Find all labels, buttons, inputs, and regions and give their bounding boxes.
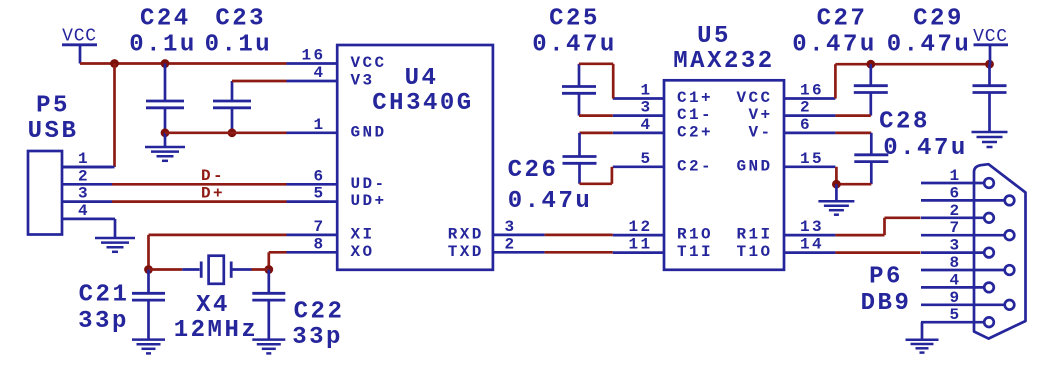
- pin 2 U4: [493, 251, 545, 254]
- svg-text:1: 1: [78, 150, 90, 168]
- wire VCC to USB pin1: [113, 64, 116, 168]
- svg-text:T1I: T1I: [677, 243, 713, 261]
- svg-text:R1I: R1I: [736, 226, 772, 244]
- svg-text:0.1u: 0.1u: [205, 31, 273, 58]
- pin 2 P6: [921, 216, 984, 219]
- ground: [972, 131, 1008, 134]
- svg-text:5: 5: [313, 185, 325, 203]
- svg-text:CH340G: CH340G: [372, 90, 473, 117]
- IC U4 CH340G body: [337, 45, 493, 270]
- capacitor C23: [231, 81, 234, 101]
- pin 1 P6: [921, 182, 984, 185]
- svg-text:C26: C26: [508, 157, 559, 184]
- pin 2 P5: [62, 183, 112, 186]
- svg-text:GND: GND: [736, 157, 772, 175]
- svg-text:12MHz: 12MHz: [174, 317, 259, 344]
- svg-text:5: 5: [640, 150, 652, 168]
- junction: [144, 265, 153, 274]
- svg-text:0.47u: 0.47u: [887, 31, 972, 58]
- svg-text:USB: USB: [28, 118, 79, 145]
- connector P6 DB9 outline: [974, 164, 1026, 338]
- pin 3 P6: [921, 251, 984, 254]
- capacitor C27: [869, 64, 872, 86]
- svg-text:14: 14: [800, 236, 824, 254]
- pin 6 P6: [921, 199, 1005, 202]
- pin 2 U5: [784, 114, 835, 117]
- svg-text:C1-: C1-: [677, 106, 713, 124]
- pin 7 U4: [287, 234, 338, 237]
- svg-text:GND: GND: [351, 123, 387, 141]
- svg-text:3: 3: [949, 237, 961, 255]
- capacitor C26: [580, 132, 613, 135]
- svg-text:1: 1: [640, 82, 652, 100]
- svg-text:D-: D-: [201, 167, 225, 185]
- wire V+ to C27: [835, 114, 870, 117]
- wire XI net: [149, 234, 287, 237]
- pin 14 U5: [784, 251, 835, 254]
- svg-text:V+: V+: [748, 106, 772, 124]
- junction: [228, 128, 237, 137]
- svg-text:C2+: C2+: [677, 124, 713, 142]
- wire P5 pin4 to ground: [112, 218, 115, 221]
- capacitor C25: [578, 64, 581, 87]
- svg-text:7: 7: [949, 219, 961, 237]
- pin 6 U5: [784, 132, 835, 135]
- svg-text:3: 3: [640, 99, 652, 117]
- svg-text:15: 15: [800, 150, 824, 168]
- svg-text:UD-: UD-: [351, 175, 387, 193]
- svg-text:33p: 33p: [78, 308, 129, 335]
- svg-text:C22: C22: [294, 299, 345, 326]
- pin 8 U4: [287, 251, 338, 254]
- svg-text:33p: 33p: [292, 324, 343, 351]
- pin 16 U5: [784, 97, 835, 100]
- svg-text:C24: C24: [140, 6, 191, 33]
- svg-text:0.47u: 0.47u: [508, 188, 593, 215]
- pin 11 U5: [613, 251, 664, 254]
- pin 1 U4: [287, 131, 338, 134]
- pin 4 U5: [613, 132, 664, 135]
- svg-text:6: 6: [313, 167, 325, 185]
- svg-text:D+: D+: [201, 184, 225, 202]
- pin 4 P6: [921, 286, 984, 289]
- svg-text:2: 2: [505, 235, 517, 253]
- junction: [161, 128, 170, 137]
- svg-text:C25: C25: [549, 6, 600, 33]
- svg-text:RXD: RXD: [448, 226, 484, 244]
- svg-text:12: 12: [628, 218, 652, 236]
- svg-text:MAX232: MAX232: [673, 48, 774, 75]
- svg-text:5: 5: [949, 306, 961, 324]
- pin 4 U4: [287, 80, 338, 83]
- pin 5 P6: [921, 321, 984, 324]
- svg-text:UD+: UD+: [351, 192, 387, 210]
- svg-text:C23: C23: [215, 6, 266, 33]
- wire D+ net: [112, 200, 287, 203]
- svg-text:4: 4: [78, 202, 90, 220]
- svg-text:TXD: TXD: [448, 243, 484, 261]
- pin 6 U4: [287, 183, 338, 186]
- ground: [835, 184, 838, 201]
- pin 12 U5: [613, 234, 664, 237]
- pin 13 U5: [784, 234, 835, 237]
- wire RXD net: [545, 234, 613, 237]
- junction: [110, 59, 119, 68]
- ground: [252, 338, 285, 341]
- svg-text:2: 2: [78, 167, 90, 185]
- wire GND rail: [165, 131, 287, 134]
- svg-text:VCC: VCC: [351, 54, 387, 72]
- wire D- net: [112, 183, 287, 186]
- capacitor C24: [164, 64, 167, 102]
- svg-text:3: 3: [78, 185, 90, 203]
- svg-text:9: 9: [949, 289, 961, 307]
- pin 3 U5: [613, 114, 664, 117]
- junction: [161, 59, 170, 68]
- svg-text:U4: U4: [405, 65, 439, 92]
- ground: [164, 133, 167, 147]
- pin 5 U4: [287, 200, 338, 203]
- pin 3 P5: [62, 200, 112, 203]
- svg-text:16: 16: [301, 47, 325, 65]
- svg-text:3: 3: [505, 218, 517, 236]
- capacitor C28: [835, 132, 871, 135]
- pin 16 U4: [287, 62, 338, 65]
- pin 7 P6: [921, 234, 1005, 237]
- ground: [906, 338, 939, 341]
- svg-text:R1O: R1O: [677, 226, 713, 244]
- svg-text:VCC: VCC: [736, 89, 772, 107]
- svg-text:V3: V3: [351, 72, 375, 90]
- svg-text:0.47u: 0.47u: [883, 135, 968, 162]
- svg-text:16: 16: [800, 82, 824, 100]
- svg-text:C1+: C1+: [677, 89, 713, 107]
- svg-text:XO: XO: [351, 243, 375, 261]
- connector P5 USB: [28, 151, 62, 235]
- svg-text:4: 4: [313, 64, 325, 82]
- svg-text:2: 2: [800, 99, 812, 117]
- junction: [832, 180, 841, 189]
- svg-text:T1O: T1O: [736, 243, 772, 261]
- wire XO net: [269, 251, 287, 254]
- svg-text:X4: X4: [196, 292, 230, 319]
- capacitor C22: [267, 270, 270, 294]
- svg-text:0.47u: 0.47u: [792, 31, 877, 58]
- pin 9 P6: [921, 303, 1005, 306]
- svg-text:13: 13: [800, 218, 824, 236]
- pin 8 P6: [921, 269, 1005, 272]
- svg-text:6: 6: [949, 184, 961, 202]
- svg-text:DB9: DB9: [861, 290, 912, 317]
- wire VCC rail: [80, 62, 287, 65]
- svg-text:XI: XI: [351, 226, 375, 244]
- svg-text:4: 4: [640, 116, 652, 134]
- svg-text:C28: C28: [879, 109, 930, 136]
- svg-text:C29: C29: [913, 6, 964, 33]
- svg-text:0.47u: 0.47u: [532, 31, 617, 58]
- pin 3 U4: [493, 234, 545, 237]
- junction: [264, 265, 273, 274]
- wire T1O to DB9 pin3: [835, 251, 920, 254]
- svg-text:C2-: C2-: [677, 157, 713, 175]
- svg-text:2: 2: [949, 202, 961, 220]
- pin 4 P5: [62, 218, 112, 221]
- pin 15 U5: [784, 165, 835, 168]
- svg-text:U5: U5: [697, 23, 731, 50]
- svg-text:6: 6: [800, 116, 812, 134]
- junction: [866, 60, 875, 69]
- svg-text:7: 7: [313, 218, 325, 236]
- capacitor C21: [147, 270, 150, 294]
- pin 5 U5: [613, 165, 664, 168]
- svg-text:8: 8: [313, 235, 325, 253]
- svg-text:P5: P5: [36, 93, 70, 120]
- svg-text:1: 1: [313, 116, 325, 134]
- wire GND pin15: [835, 167, 838, 184]
- svg-text:C21: C21: [79, 282, 130, 309]
- svg-text:11: 11: [628, 236, 652, 254]
- svg-text:0.1u: 0.1u: [129, 31, 197, 58]
- svg-text:V-: V-: [748, 124, 772, 142]
- wire VCC net right: [834, 64, 837, 98]
- pin 1 P5: [62, 166, 112, 169]
- wire C23 to V3 pin4: [232, 80, 287, 83]
- IC U5 MAX232 body: [664, 80, 784, 269]
- svg-text:1: 1: [949, 167, 961, 185]
- wire TXD net: [545, 251, 613, 254]
- svg-text:4: 4: [949, 271, 961, 289]
- wire R1I to DB9 pin2: [835, 234, 884, 237]
- ground: [95, 237, 135, 240]
- wire DB9 pin5 to ground: [921, 322, 924, 340]
- capacitor C29: [988, 64, 991, 86]
- junction: [985, 60, 994, 69]
- svg-text:P6: P6: [869, 264, 903, 291]
- pin 1 U5: [613, 97, 664, 100]
- crystal X4: [149, 268, 183, 271]
- ground: [132, 338, 165, 341]
- svg-text:C27: C27: [817, 6, 868, 33]
- svg-text:8: 8: [949, 254, 961, 272]
